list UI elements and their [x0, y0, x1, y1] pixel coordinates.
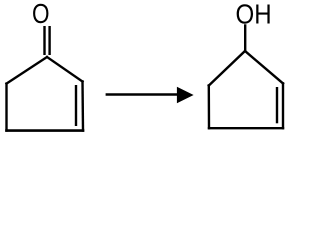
- C=O double bond line 2: [48, 26, 50, 55]
- C1-OH single bond: [244, 26, 246, 52]
- right ring bond C5-C4 (left vertical): [208, 86, 211, 129]
- left ring bond C2-C1 (mid-right to apex): [47, 57, 83, 82]
- reaction arrow shaft: [106, 93, 179, 95]
- right ring bond C2-C1 (mid-right to apex): [245, 51, 283, 83]
- right ring bond C1-C5 (apex to mid-left): [209, 51, 245, 86]
- svg-text:O: O: [32, 0, 50, 30]
- left ring C2=C3 double bond inner line: [75, 85, 77, 126]
- reaction arrow head: [177, 87, 194, 103]
- right ring C2=C3 double bond inner line: [276, 87, 278, 123]
- left ring bond C5-C4 (left vertical): [5, 84, 7, 131]
- left ring bond C4-C3 (bottom): [7, 129, 84, 132]
- svg-text:OH: OH: [236, 0, 272, 30]
- right ring bond C3-C2 (right vertical): [282, 83, 284, 128]
- left ring bond C3-C2 (right vertical): [81, 82, 84, 131]
- right ring bond C4-C3 (bottom): [209, 127, 283, 129]
- C=O double bond line 1: [43, 26, 45, 55]
- left ring bond C1-C5 (apex to mid-left): [7, 57, 48, 84]
